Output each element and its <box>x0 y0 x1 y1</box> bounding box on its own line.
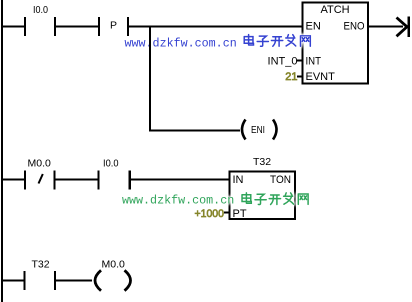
svg-text:ATCH: ATCH <box>321 4 350 16</box>
contact M0.0 right bar <box>54 171 56 190</box>
rung 1 wire between I0.0 and P contact <box>56 26 98 28</box>
coil M0.0 left paren <box>95 270 101 290</box>
watermark 1 blue chinese 网 <box>301 36 311 46</box>
svg-text:www.dzkfw.com.cn: www.dzkfw.com.cn <box>122 194 234 208</box>
svg-text:21: 21 <box>285 71 297 83</box>
coil ENI right paren <box>273 120 277 140</box>
contact P left bar <box>98 17 100 36</box>
watermark 1 blue chinese 子 <box>257 36 268 46</box>
ENO output wire <box>368 26 403 28</box>
contact I0.0 rung2 left bar <box>98 171 100 190</box>
box ATCH outline <box>303 3 369 84</box>
branch vertical wire redrawn over watermark <box>149 30 151 55</box>
svg-text:ENI: ENI <box>251 124 265 136</box>
continuation arrow bar <box>408 17 411 38</box>
svg-text:INT_0: INT_0 <box>268 56 298 68</box>
svg-text:I0.0: I0.0 <box>103 158 119 170</box>
watermark 1 blue www.dzkfw.com.cn <box>125 35 311 51</box>
svg-text:ENO: ENO <box>344 21 365 33</box>
branch vertical wire down to ENI <box>149 27 151 132</box>
svg-text:INT: INT <box>306 56 322 68</box>
left power rail <box>1 0 3 302</box>
svg-text:T32: T32 <box>253 156 271 168</box>
svg-text:I0.0: I0.0 <box>33 4 48 16</box>
watermark 2 green chinese 开 <box>269 195 280 205</box>
svg-text:PT: PT <box>233 208 247 220</box>
watermark 2 green www.dzkfw.com.cn <box>122 193 308 208</box>
contact I0.0 rung2 right bar <box>129 171 132 190</box>
watermark 2 green chinese 发 <box>284 193 294 204</box>
contact I0.0 right bar <box>54 17 56 36</box>
contact T32 right bar <box>54 271 56 290</box>
rung 2 wire from I0.0 to TON box <box>131 179 230 181</box>
svg-text:IN: IN <box>233 174 244 186</box>
continuation arrow chevron <box>397 18 408 37</box>
ATCH INT input stub <box>297 60 303 62</box>
watermark 1 blue chinese 开 <box>271 37 282 47</box>
svg-text:EN: EN <box>306 21 321 33</box>
svg-text:P: P <box>110 20 117 32</box>
watermark 2 green chinese 电 <box>242 193 251 203</box>
branch horizontal wire to ENI coil <box>150 130 240 132</box>
svg-text:M0.0: M0.0 <box>28 158 52 170</box>
rung 3 wire from T32 to coil <box>56 280 92 282</box>
TON PT input stub <box>224 212 230 214</box>
svg-text:TON: TON <box>270 174 291 186</box>
watermark 2 green chinese 子 <box>255 194 266 204</box>
contact M0.0 slash <box>39 174 43 184</box>
watermark 1 blue chinese 发 <box>286 35 296 46</box>
rung 3 wire from rail to contact T32 <box>3 280 24 282</box>
svg-text:T32: T32 <box>32 259 50 271</box>
box TON outline <box>230 172 296 220</box>
coil ENI left paren <box>242 120 246 140</box>
contact M0.0 left bar <box>24 171 26 190</box>
svg-text:M0.0: M0.0 <box>102 259 126 271</box>
rung 1 wire from P contact to ATCH box <box>129 26 303 28</box>
contact T32 left bar <box>24 271 26 290</box>
rung 2 wire between contacts <box>56 179 98 181</box>
svg-text:+1000: +1000 <box>195 208 225 220</box>
svg-text:www.dzkfw.com.cn: www.dzkfw.com.cn <box>125 37 237 51</box>
coil M0.0 right paren <box>125 270 131 290</box>
watermark 1 blue chinese 电 <box>244 35 253 45</box>
rung 1 wire from rail to contact I0.0 <box>3 26 25 28</box>
ATCH EVNT input stub <box>297 76 303 78</box>
svg-text:EVNT: EVNT <box>306 71 336 83</box>
watermark 2 green chinese 网 <box>298 194 308 204</box>
contact I0.0 left bar <box>24 17 26 36</box>
contact P right bar <box>127 17 129 36</box>
rung 2 wire from rail to contact M0.0 <box>3 179 25 181</box>
